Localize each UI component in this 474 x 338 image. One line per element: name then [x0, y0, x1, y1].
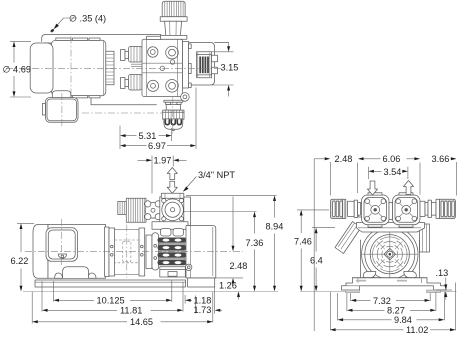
inlet fitting lower (top view) — [121, 75, 143, 91]
3/4" NPT label — [183, 170, 236, 192]
motor top view — [30, 37, 106, 99]
manifold link lines — [131, 64, 152, 66]
floor reference line — [23, 290, 278, 292]
svg-text:8.27: 8.27 — [387, 306, 405, 316]
left hose coupler front view — [348, 200, 361, 217]
dimension 5.31 — [120, 126, 172, 150]
bottom dims side view: extension lines — [32, 281, 215, 324]
svg-text:6.97: 6.97 — [148, 141, 166, 151]
right hose coupler front view — [420, 200, 431, 217]
dimension 3.15 — [212, 43, 239, 97]
hidden bracket edge dashed — [82, 112, 163, 114]
motor fan housing circle front view — [362, 226, 418, 282]
dimension 1.97 — [138, 156, 187, 194]
extension line base top — [188, 277, 244, 279]
right side bracket front view — [420, 224, 430, 252]
junction box top view — [43, 91, 79, 128]
pump head side view: inlet barb — [118, 202, 127, 215]
dimension 1.18 — [185, 296, 211, 306]
fan grille front view — [362, 227, 417, 282]
mounting hole label .35 (4) — [50, 14, 106, 33]
dimension 6.97 — [120, 88, 196, 152]
right pump head front view — [393, 193, 421, 227]
dimension 7.32 — [351, 296, 431, 306]
bracket plate top view — [42, 35, 229, 86]
dimension 14.65 — [32, 317, 213, 327]
relief valve knob top view — [160, 1, 187, 39]
base bracket front view — [342, 278, 447, 293]
pump finned body side view — [158, 229, 187, 266]
svg-text:1.26: 1.26 — [219, 281, 237, 291]
bottom dims front view: extension lines — [331, 283, 456, 331]
dimension .13 — [436, 268, 453, 299]
svg-text:7.36: 7.36 — [246, 238, 264, 248]
hook ring — [186, 264, 192, 270]
motor cradle feet — [55, 267, 97, 278]
dimension 8.94 — [186, 195, 283, 291]
svg-text:11.02: 11.02 — [406, 325, 428, 335]
svg-text:14.65: 14.65 — [130, 317, 153, 327]
pump head side view: ribbed coupler — [126, 198, 146, 222]
hatched hose connector top view — [197, 52, 212, 78]
svg-text:1.73: 1.73 — [194, 305, 212, 315]
svg-text:∅ .35 (4): ∅ .35 (4) — [69, 14, 106, 24]
centerline top view — [6, 67, 222, 69]
dimension 7.46 — [294, 210, 329, 292]
svg-text:3.66: 3.66 — [432, 154, 450, 164]
dimension 6.06 — [358, 154, 420, 164]
motor feet front view — [363, 272, 416, 278]
svg-text:8.94: 8.94 — [266, 222, 284, 232]
bracket front edge — [91, 98, 157, 105]
flow arrows (hollow) side view — [167, 168, 177, 194]
motor side view — [33, 225, 106, 279]
left pump head front view — [359, 193, 389, 227]
svg-text:6.22: 6.22 — [11, 256, 29, 266]
flow arrow up (outlet) front view — [403, 181, 413, 195]
pump head side view: bolt flange — [145, 201, 162, 220]
dimension 2.48 (side) — [230, 197, 248, 286]
junction box centerline — [61, 219, 63, 266]
motor body sides front view — [361, 240, 420, 278]
pump head side view: port flange circle — [160, 193, 191, 225]
port stubs top view — [212, 55, 218, 73]
svg-text:9.84: 9.84 — [394, 315, 412, 325]
dimension 7.36 — [184, 212, 263, 292]
motor adapter flange fins top view — [106, 51, 114, 84]
dimension 1.26 — [219, 281, 240, 300]
svg-text:3.54: 3.54 — [384, 167, 402, 177]
svg-text:3/4" NPT: 3/4" NPT — [198, 170, 235, 180]
dimension 1.73 — [194, 305, 223, 315]
floor line front view — [300, 290, 457, 292]
svg-text:.13: .13 — [436, 268, 449, 278]
motor adapter / bracket side view — [105, 225, 159, 278]
svg-text:11.81: 11.81 — [120, 306, 142, 316]
svg-text:∅ 4.69: ∅ 4.69 — [3, 65, 31, 75]
svg-text:5.31: 5.31 — [139, 131, 157, 141]
pump bottom box side view — [160, 267, 186, 277]
svg-text:3.15: 3.15 — [221, 63, 239, 73]
top dims front view: extension lines — [314, 159, 456, 331]
pump mid body front view — [357, 223, 425, 233]
pump block port circles — [147, 46, 178, 92]
dimension 11.81 — [42, 306, 183, 316]
dimension 11.02 — [330, 325, 456, 335]
rear pump housing side view — [186, 226, 216, 278]
svg-text:7.46: 7.46 — [294, 237, 312, 247]
dimension 6.22 — [11, 223, 35, 291]
dimension 4.69 — [3, 41, 32, 97]
bottom port barb top view — [163, 97, 184, 135]
svg-text:6.4: 6.4 — [310, 255, 323, 265]
svg-text:7.32: 7.32 — [373, 296, 391, 306]
dimension 3.54 — [368, 167, 408, 177]
inlet fitting upper (top view) — [121, 47, 143, 63]
dimension 6.4 — [310, 228, 335, 292]
svg-text:1.97: 1.97 — [154, 156, 172, 166]
svg-text:2.48: 2.48 — [230, 261, 248, 271]
svg-text:6.06: 6.06 — [383, 154, 401, 164]
pump block top view — [142, 36, 189, 101]
motor centerline side view — [25, 250, 243, 252]
dimension 2.48 (front) — [314, 154, 352, 164]
svg-text:2.48: 2.48 — [335, 154, 353, 164]
dimension 9.84 — [338, 315, 445, 325]
flow arrow down (inlet) front view — [367, 181, 377, 195]
base plate side view — [35, 278, 215, 287]
terminal box (slanted) front view — [335, 222, 361, 254]
svg-text:10.125: 10.125 — [97, 296, 125, 306]
pump body transition — [152, 222, 188, 229]
junction box side view — [46, 228, 78, 261]
left hose barb front view — [331, 199, 346, 218]
dimension 8.27 — [347, 306, 436, 316]
clamp bar top view — [183, 42, 192, 89]
right hose barb front view — [431, 199, 455, 218]
dimension 10.125 — [53, 296, 171, 306]
center coupler between heads — [389, 203, 393, 220]
dimension 3.66 — [432, 154, 457, 164]
